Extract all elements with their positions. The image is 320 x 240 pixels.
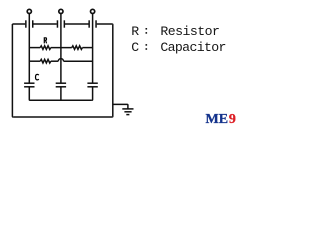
capacitor (top wire break at T3) bbox=[89, 20, 96, 27]
ground bbox=[122, 109, 133, 115]
wire stem T2 below capacitor C2 bbox=[60, 88, 62, 101]
wire row A middle segment bbox=[51, 47, 72, 49]
capacitor (top wire break at T2) bbox=[57, 20, 64, 27]
capacitor C1 plates bbox=[24, 83, 34, 87]
svg-text:Capacitor: Capacitor bbox=[160, 40, 226, 55]
svg-text:Resistor: Resistor bbox=[160, 24, 220, 39]
svg-text:9: 9 bbox=[229, 112, 236, 127]
wire left rail bbox=[11, 24, 14, 117]
wire row B left segment (stem T1 to resistor R row-B) bbox=[29, 60, 40, 62]
wire bottom bus joining capacitor bottoms bbox=[30, 99, 92, 101]
svg-text:R: R bbox=[131, 24, 139, 39]
terminal T1 bbox=[27, 9, 31, 13]
wire row B right segment (hop to stem T3) bbox=[64, 60, 93, 62]
label C (capacitor designator) bbox=[36, 74, 39, 80]
wire stem from T3 down (broken by capacitor C3) bbox=[92, 14, 94, 83]
wire top rail segment 2 bbox=[33, 23, 56, 25]
resistor R (row A, right) bbox=[72, 46, 83, 50]
wire stem T3 below capacitor C3 to bottom bus corner bbox=[91, 88, 94, 101]
wire row A right segment (to stem T3) bbox=[82, 47, 92, 49]
wire stem from T2 down (broken by capacitor C2) bbox=[60, 14, 62, 83]
capacitor C2 plates bbox=[56, 83, 66, 87]
capacitor (top wire break at T1) bbox=[26, 20, 33, 27]
logo ME9 bbox=[206, 112, 236, 127]
wire top rail segment 4 bbox=[97, 23, 112, 25]
crossover hop (row B jumps stem T2, no connection) bbox=[58, 59, 63, 62]
svg-text:ME: ME bbox=[206, 112, 229, 127]
wire top rail segment 1 bbox=[12, 23, 25, 25]
legend line 1: R : Resistor bbox=[131, 24, 220, 39]
wire row B middle segment to crossover hop bbox=[51, 60, 59, 62]
terminal T3 bbox=[91, 9, 95, 13]
wire row A left segment (stem T1 to resistor R row-A-left) bbox=[29, 47, 40, 49]
svg-text:C: C bbox=[131, 40, 139, 55]
wire stem from T1 down to node row (passes through top break, broken by capacitor C1) bbox=[28, 14, 30, 83]
wire right rail bbox=[111, 24, 114, 117]
wire stem T1 below capacitor C1 to bottom bus corner bbox=[28, 88, 31, 101]
capacitor C3 plates bbox=[87, 83, 97, 87]
wire ground branch from right rail bbox=[113, 104, 128, 109]
resistor R (row B) bbox=[40, 59, 51, 63]
legend line 2: C : Capacitor bbox=[131, 40, 226, 55]
label R (resistor designator) bbox=[44, 38, 46, 44]
wire top rail segment 3 bbox=[65, 23, 89, 25]
terminal T2 bbox=[59, 9, 63, 13]
resistor R (row A, left) bbox=[40, 46, 51, 50]
wire bottom return bbox=[13, 116, 112, 118]
